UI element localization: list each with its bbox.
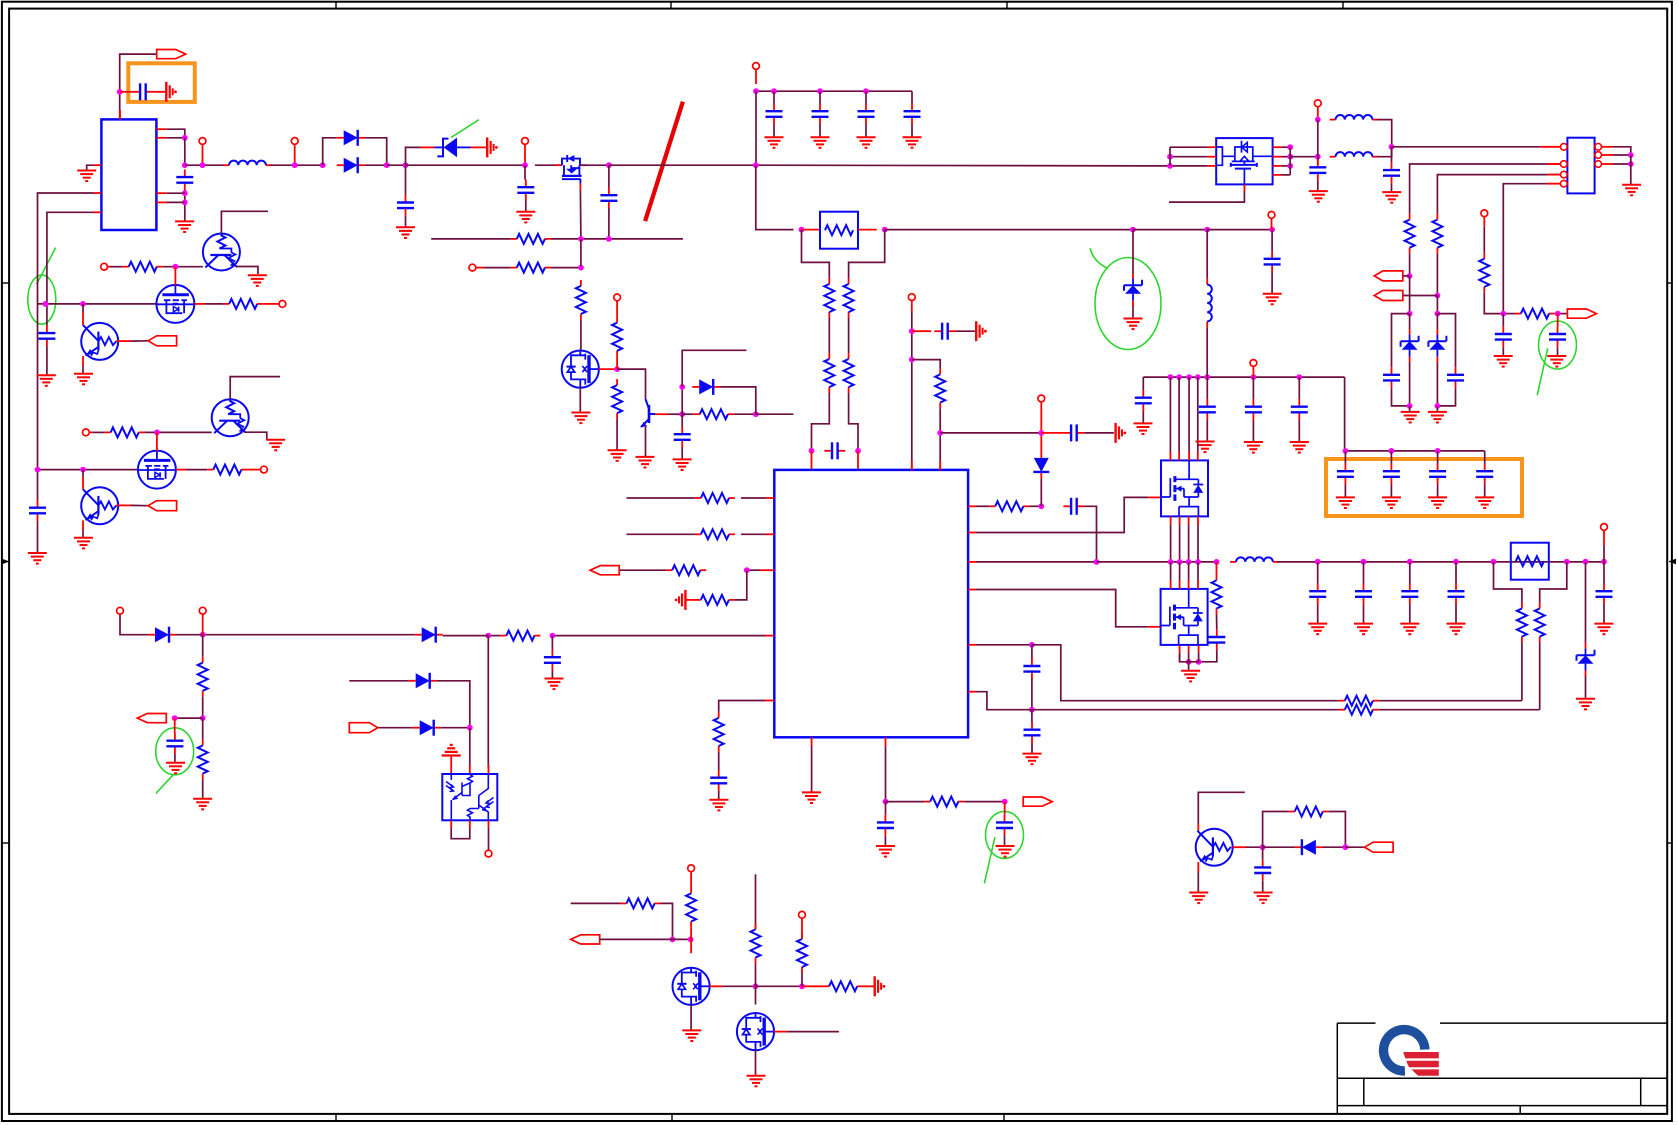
T21 stub	[801, 918, 803, 939]
J1 pin1 lead	[1540, 146, 1560, 148]
junction U-C out c	[1287, 163, 1293, 169]
transistor Q14 digital pnp	[1196, 829, 1233, 866]
wire C8 to sgnd	[955, 330, 976, 332]
Q5 top stub 2	[1179, 580, 1181, 589]
Q11 out lead	[116, 504, 131, 506]
junction x911 a	[909, 328, 915, 334]
T13 stub	[1317, 107, 1319, 120]
wire C9 dn	[174, 754, 176, 763]
wire T18 to R34	[92, 431, 104, 433]
junction J1pin4 row	[1500, 311, 1506, 317]
wire Q4 bottom pin 4	[1197, 525, 1199, 562]
wire out bus	[1278, 561, 1605, 563]
U-B top pin4 stub	[939, 461, 941, 470]
wire 1207 link b	[1206, 327, 1208, 377]
junction bias	[200, 632, 206, 638]
T6 stub	[755, 69, 757, 84]
wire U-C out tie	[1289, 147, 1291, 175]
pin stub U-A top	[119, 110, 121, 119]
ground C13	[996, 846, 1015, 857]
wire Q8 base up	[82, 304, 84, 312]
wire U-B gnd pin dn	[811, 746, 813, 792]
green annotation line cap right	[1537, 348, 1548, 395]
ground C-b2-3	[1428, 497, 1447, 508]
wire Q4 bottom pin 3	[1188, 525, 1190, 562]
ground C32	[1254, 893, 1273, 904]
ground C-bank2	[811, 137, 830, 148]
lower mosfet gate stub	[1148, 626, 1160, 628]
capacitor C-bank4	[904, 104, 921, 125]
wire ZD5 dn	[1436, 362, 1438, 406]
junction div b	[1435, 293, 1441, 299]
capacitor C15 boot	[1063, 424, 1084, 441]
wire drain to R38	[756, 985, 803, 987]
wire C30 dn	[46, 346, 48, 375]
ground C18	[1134, 423, 1153, 434]
junction zloop b	[1435, 311, 1441, 317]
wire R5 dn	[616, 419, 618, 450]
wire Q3 emitter dn	[645, 425, 647, 457]
wire pin4 cap dn	[1502, 314, 1504, 327]
junction fb1 a	[578, 236, 584, 242]
junction cs left	[485, 633, 491, 639]
wire C5 dn	[681, 448, 683, 460]
T14 stub	[1483, 217, 1485, 227]
capacitor C-bank3	[858, 104, 875, 125]
mosfet Q13	[737, 1013, 774, 1050]
wire J1 pin2	[1410, 164, 1561, 214]
terminal T12	[1601, 524, 1608, 531]
Q4 pin stub 3	[1188, 452, 1190, 461]
wire out cap3 up	[1409, 562, 1411, 584]
capacitor C11	[710, 770, 727, 791]
terminal T14	[1481, 210, 1488, 217]
ground C2	[396, 227, 415, 238]
wire rowE bus2	[1097, 561, 1217, 563]
wire chain848 bot	[849, 393, 858, 451]
res-box left stub	[802, 229, 821, 231]
wire row2	[38, 469, 139, 471]
wire Q11 base up	[82, 470, 84, 477]
ground C-out4	[1447, 624, 1466, 635]
green annotation ellipse left	[28, 275, 56, 324]
terminal T17	[261, 466, 268, 473]
junction Q5 bot b	[1196, 659, 1202, 665]
wire isense row b	[1379, 700, 1522, 702]
wire R17 dn	[202, 697, 204, 718]
wire C7 dn	[1271, 272, 1273, 294]
junction zgnd b	[1435, 403, 1441, 409]
wire bus to box right	[885, 229, 1133, 231]
junction bank a	[753, 88, 759, 94]
junction bc a	[670, 937, 676, 943]
junction hv bus 1	[1168, 374, 1174, 380]
wire main rail segment 6	[581, 164, 609, 166]
junction out bank 3	[1407, 559, 1413, 565]
ground C11	[709, 800, 728, 811]
wire x755 vert	[755, 874, 757, 929]
capacitor C-out4	[1448, 584, 1465, 605]
Q12 drain stub	[710, 985, 723, 987]
wire C12 dn	[884, 836, 886, 846]
J1 pin4 lead	[1547, 183, 1561, 185]
title block	[1337, 1023, 1667, 1114]
resistor R10 divider	[844, 353, 854, 393]
wire bus to 1272	[1207, 229, 1272, 231]
diode D2 (bottom of pair)	[337, 157, 365, 173]
ground Q14	[1189, 893, 1208, 904]
pin stub U-A right2	[156, 137, 166, 139]
wire Q7 emitter	[236, 267, 258, 275]
wire Q4 top pin 1	[1169, 377, 1171, 451]
company logo	[1376, 1021, 1441, 1078]
terminal T3	[522, 138, 529, 145]
wire diode pair top branch	[323, 138, 337, 165]
wire U-A pin to rail-2	[47, 212, 94, 304]
ground R5	[608, 450, 627, 461]
terminal T21	[799, 911, 806, 918]
junction filter out	[1389, 144, 1395, 150]
flag PG	[1365, 842, 1394, 852]
capacitor C8	[934, 323, 955, 340]
opto bot2 stub	[469, 821, 471, 829]
U-B right pin stub rowB	[968, 505, 976, 507]
Q14 collector lead	[1197, 824, 1199, 831]
wire main rail segment 4	[406, 164, 526, 166]
wire C25 dn	[1391, 183, 1393, 192]
wire U-C left 1	[1170, 146, 1207, 148]
junction bank c	[817, 88, 823, 94]
wire chain848 mid	[848, 318, 850, 353]
junction out bank 1	[1315, 559, 1321, 565]
terminal T4 stub	[476, 267, 484, 269]
transistor Q10 digital npn	[212, 399, 249, 436]
wire bank2 cap3 up	[1437, 451, 1439, 464]
wire rowC gate upper	[976, 497, 1148, 532]
wire R28 dn	[1436, 254, 1438, 296]
frame center marker arrow left	[2, 559, 9, 565]
pin stub U-A right4	[156, 201, 166, 203]
wire R18 dn	[202, 780, 204, 799]
wire U-A pin1 loop	[166, 129, 185, 138]
R36 dn	[690, 927, 692, 939]
junction C16 bot	[1029, 707, 1035, 713]
wire Q8 out to flag	[131, 340, 148, 342]
wire vcc loop down	[184, 138, 186, 167]
pin stub U-A right3	[156, 192, 166, 194]
wire flag to D8	[378, 727, 413, 729]
gate1 dn	[174, 267, 176, 286]
ground below U-A right chain	[175, 221, 194, 232]
terminal T6	[753, 63, 760, 70]
wire diode D2 out	[365, 164, 387, 166]
capacitor C-b2-1	[1337, 464, 1354, 485]
wire 1299 dn	[1298, 377, 1300, 399]
green annotation ellipse zener	[1095, 258, 1161, 350]
green annotation ellipse cap bottom-left	[156, 728, 194, 775]
wire comp branch	[735, 570, 747, 600]
wire R40 to corner	[1329, 812, 1346, 848]
capacitor C9 (circled)	[166, 733, 183, 754]
signal arrow CS	[1567, 309, 1596, 318]
wire C25 up	[1391, 147, 1393, 163]
wire hv bus	[1143, 376, 1344, 378]
ground C21	[1290, 442, 1309, 453]
capacitor C16	[1023, 658, 1040, 679]
wire bank2 cap3 dn	[1437, 485, 1439, 498]
wire D9 right	[1323, 846, 1346, 848]
terminal T19	[485, 850, 492, 857]
wire bc row1	[571, 902, 621, 904]
chassis ground boot	[1116, 423, 1127, 443]
zener ZD3	[1577, 643, 1595, 677]
Q11 emitter lead	[82, 520, 84, 530]
junction sense box left	[1491, 559, 1497, 565]
wire Q8 emitter	[82, 366, 84, 374]
wire 1207 link a	[1206, 230, 1208, 279]
wire T16 to R32	[111, 266, 123, 268]
mosfet Q9	[138, 451, 176, 489]
wire Q14 base	[1246, 846, 1263, 848]
wire R34 to base	[145, 431, 212, 433]
wire Q12 source	[690, 1005, 692, 1031]
wire Q11 out to flag	[131, 504, 148, 506]
U-B left pin stub vin	[765, 700, 774, 702]
wire R40 b	[1270, 811, 1288, 813]
wire D7 out	[437, 681, 470, 728]
capacitor C31 rail1	[29, 500, 46, 521]
ground U-A left	[77, 171, 96, 182]
capacitor C-bank2	[812, 104, 829, 125]
T18 stub	[89, 431, 92, 433]
Q5 bot stub 1	[1179, 645, 1181, 653]
junction U-C tie a	[1167, 154, 1173, 160]
junction U-A pin3	[182, 190, 188, 196]
wire R6 to corner	[734, 413, 756, 415]
U-B left pin stub y498	[766, 497, 774, 499]
ground C23	[1594, 624, 1613, 635]
wire zgnd b stub	[1436, 406, 1438, 412]
inductor L1	[223, 161, 272, 166]
junction boot row	[1038, 430, 1044, 436]
chassis ground at ZD1	[487, 137, 498, 157]
capacitor C6 loop	[824, 442, 845, 459]
wire cs row2	[488, 635, 500, 637]
ground C-b2-4	[1475, 497, 1494, 508]
green annotation line bottom-left	[156, 775, 173, 794]
junction hv bus 4	[1195, 374, 1201, 380]
wire Q10 emitter	[245, 432, 267, 440]
wire R27 dn	[1409, 254, 1411, 276]
wire U-C tie	[1169, 147, 1171, 166]
resistor R4	[612, 317, 622, 357]
ground C30	[37, 375, 56, 386]
wire main rail segment 5	[535, 164, 561, 166]
wire bank2 bus	[1345, 450, 1485, 452]
wire R38v dn	[755, 963, 757, 986]
junction Q5 bot a	[1186, 659, 1192, 665]
resistor R15	[695, 595, 735, 605]
wire cs chain dn	[551, 636, 553, 650]
junction fb diode right	[753, 411, 759, 417]
wire D9 left	[1263, 846, 1295, 848]
wire bank cap 1 dn	[773, 125, 775, 138]
wire C4 up	[608, 165, 610, 187]
mosfet Q12	[673, 968, 710, 1005]
wire Q13 source	[755, 1050, 757, 1076]
wire U-A gnd pin	[87, 165, 94, 170]
wire boot cap right	[1084, 432, 1114, 434]
ground Q13	[747, 1076, 766, 1087]
wire C13 dn	[1004, 836, 1006, 846]
opto bot3 stub	[488, 821, 490, 829]
wire bias dn	[202, 635, 204, 657]
ground C-out1	[1308, 624, 1327, 635]
junction bank b	[771, 88, 777, 94]
ground Q5	[1181, 671, 1200, 682]
Q4 pin stub 1	[1169, 452, 1171, 461]
wire U-C right 4	[1282, 174, 1291, 176]
wire vref cap dn	[885, 802, 887, 815]
junction J1 r b	[1628, 161, 1634, 167]
wire Q5 top pin 4	[1197, 562, 1199, 580]
wire chain829 mid	[828, 318, 830, 353]
opto pin2 stub	[469, 765, 471, 774]
wire to arrow FB	[175, 717, 203, 719]
frame center marker arrow right	[1669, 559, 1676, 565]
wire comp pin	[747, 569, 760, 571]
capacitor C-b2-2	[1383, 464, 1400, 485]
wire L4 out	[1377, 147, 1392, 157]
junction vref out	[1002, 799, 1008, 805]
junction fb1 b	[606, 236, 612, 242]
capacitor C24	[1309, 160, 1326, 181]
T7 stub	[1271, 218, 1273, 229]
res-box right stub	[858, 229, 877, 231]
wire U-C left 2	[1170, 156, 1207, 158]
wire ZD4 dn	[1409, 362, 1411, 406]
ground Q2	[571, 413, 590, 424]
resistor R12	[695, 493, 735, 503]
wire vsense row	[976, 692, 1339, 710]
wire rail2 cap up	[46, 304, 48, 326]
resistor R13	[695, 529, 735, 539]
U-B left pin stub cs	[765, 635, 774, 637]
connector J1 right pin 1	[1595, 144, 1602, 151]
capacitor C21	[1291, 399, 1308, 420]
wire pnp collector	[1198, 792, 1245, 824]
resistor R27	[1405, 214, 1415, 254]
terminal T5	[614, 294, 621, 301]
wire branch to x940	[912, 360, 940, 369]
wire Q4 bottom pin 2	[1179, 525, 1181, 562]
capacitor C-bank1	[766, 104, 783, 125]
wire isense row	[976, 644, 1032, 646]
wire Q5 top pin 2	[1179, 562, 1181, 580]
pin stub U-A right1	[156, 128, 166, 130]
mosfet Q6	[156, 285, 194, 323]
wire Q3 base	[668, 413, 682, 415]
wire bank cap 3 up	[865, 91, 867, 103]
D6 top lead	[1040, 433, 1042, 451]
wire T12 dn	[1603, 545, 1605, 562]
wire div a dn	[1409, 276, 1411, 314]
ground zloop a	[1401, 412, 1420, 423]
orange highlight box 2	[1326, 459, 1522, 516]
wire main rail segment 2	[271, 164, 323, 166]
ground C3	[516, 212, 535, 223]
ground C-out2	[1354, 624, 1373, 635]
wire bank cap 1 up	[773, 91, 775, 103]
junction row1 b	[80, 301, 86, 307]
wire vref dn	[885, 746, 887, 802]
junction hv bus 2	[1176, 374, 1182, 380]
wire D6 to rowB	[1040, 479, 1042, 506]
junction 1207 bus	[1204, 227, 1210, 233]
resistor R5	[612, 379, 622, 419]
wire Q1 drain down	[579, 190, 582, 239]
U-C left stub 3	[1207, 165, 1216, 167]
wire R12 to pin	[741, 497, 766, 499]
T8 stub	[911, 301, 913, 313]
terminal T5 stub	[616, 301, 618, 317]
junction hv bus 3	[1186, 374, 1192, 380]
diode D7	[409, 673, 437, 689]
wire snub bot	[1199, 650, 1217, 662]
wire isense to corner	[1032, 645, 1339, 701]
wire J1 pin1	[1392, 146, 1541, 148]
ground C5	[673, 459, 692, 470]
wire U-A pin3	[166, 192, 185, 194]
wire opto in dn	[469, 728, 471, 765]
U-B bottom pin1 stub	[811, 737, 813, 746]
terminal T10	[117, 607, 124, 614]
ground C20	[1244, 442, 1263, 453]
wire D8 out	[441, 727, 470, 729]
wire Q4 top pin 4	[1197, 377, 1199, 451]
junction row1 a	[43, 301, 49, 307]
inductor L4	[1330, 152, 1379, 157]
capacitor C-out3	[1401, 584, 1418, 605]
capacitor C-out2	[1355, 584, 1372, 605]
wire fb row 1b	[551, 238, 683, 240]
junction bank2 a	[1343, 448, 1349, 454]
junction rowB	[1038, 503, 1044, 509]
ground C25	[1382, 192, 1401, 203]
resistor R22	[1339, 696, 1379, 706]
wire C20 dn	[1252, 420, 1254, 442]
wire C4 down	[608, 209, 610, 239]
wire U-A pin to rail-1	[38, 193, 94, 470]
junction T2	[292, 162, 298, 168]
red slash annotation	[645, 102, 683, 222]
Q4 pin stub 2	[1178, 452, 1180, 461]
wire R29 dn	[1484, 293, 1502, 314]
terminal T4	[469, 264, 476, 271]
inductor L2	[1230, 557, 1279, 562]
wire D4 left	[203, 634, 415, 636]
wire C10 dn	[551, 671, 553, 679]
R37 to sgnd	[863, 985, 875, 987]
wire 1272 cap dn	[1271, 230, 1273, 251]
U-C bottom stub	[1243, 184, 1245, 191]
wire cap C2 down	[405, 216, 407, 228]
wire bc flag row	[600, 938, 691, 940]
ground R18	[193, 799, 212, 810]
flag G2	[148, 501, 177, 511]
wire out cap4 dn	[1455, 605, 1457, 624]
junction out end	[1601, 559, 1607, 565]
